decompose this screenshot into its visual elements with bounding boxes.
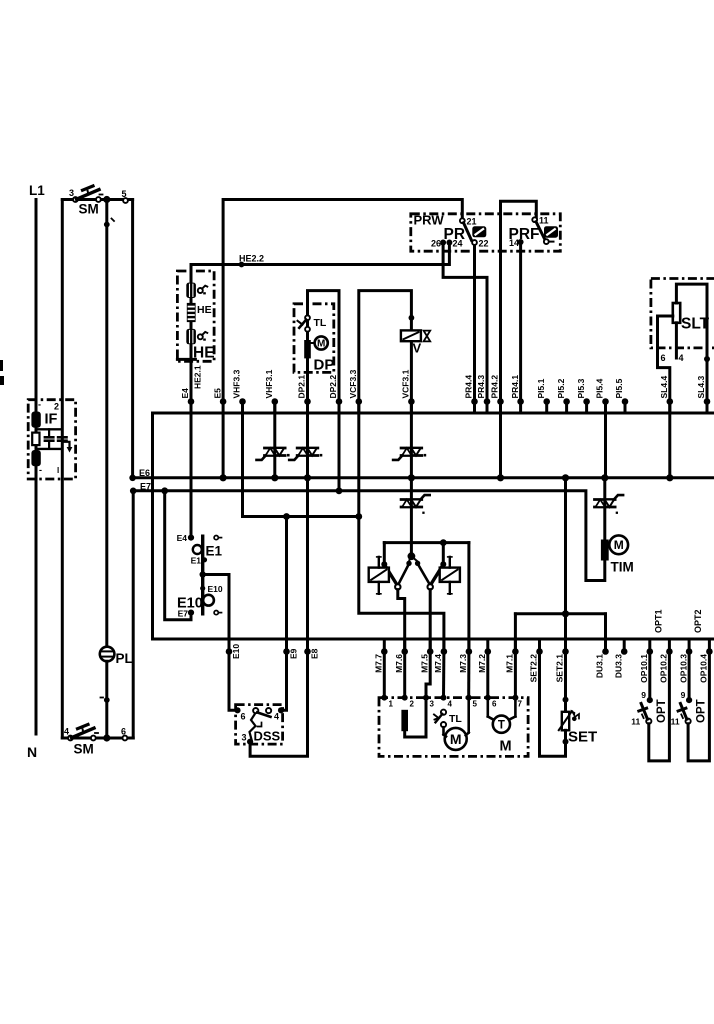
svg-text:E4: E4 — [180, 388, 190, 399]
svg-text:T: T — [498, 719, 505, 731]
svg-text:l: l — [57, 466, 59, 475]
svg-text:PI5.5: PI5.5 — [614, 378, 624, 398]
svg-text:HE: HE — [197, 304, 212, 316]
svg-text:DU3.1: DU3.1 — [595, 654, 605, 678]
svg-text:4: 4 — [448, 700, 453, 709]
svg-text:26: 26 — [431, 239, 441, 249]
svg-text:PR4.2: PR4.2 — [490, 375, 500, 399]
svg-text:HE2.1: HE2.1 — [193, 365, 203, 389]
svg-text:E8: E8 — [310, 648, 320, 659]
svg-text:OPT: OPT — [695, 699, 707, 723]
svg-text:14: 14 — [509, 238, 519, 248]
svg-text:7: 7 — [518, 700, 523, 709]
svg-text:9: 9 — [681, 690, 686, 700]
svg-text:PL: PL — [116, 651, 133, 666]
svg-text:21: 21 — [467, 217, 477, 227]
svg-text:L1: L1 — [29, 183, 45, 198]
svg-text:M7.1: M7.1 — [505, 654, 515, 673]
svg-text:E7: E7 — [140, 482, 151, 492]
svg-text:E4: E4 — [177, 533, 188, 543]
svg-text:OP10.4: OP10.4 — [699, 654, 709, 683]
svg-text:6: 6 — [661, 353, 666, 363]
svg-text:OP10.2: OP10.2 — [659, 654, 669, 683]
svg-text:5: 5 — [122, 189, 127, 199]
svg-text:DU3.3: DU3.3 — [613, 654, 623, 678]
svg-text:M7.4: M7.4 — [433, 654, 443, 673]
svg-text:M7.7: M7.7 — [374, 654, 384, 673]
svg-text:M7.2: M7.2 — [477, 654, 487, 673]
svg-text:PI5.3: PI5.3 — [576, 378, 586, 398]
svg-text:V: V — [413, 341, 422, 356]
svg-text:3: 3 — [69, 188, 74, 198]
svg-text:22: 22 — [479, 239, 489, 249]
svg-text:M7.6: M7.6 — [394, 654, 404, 673]
svg-text:6: 6 — [241, 712, 246, 722]
svg-text:SL4.3: SL4.3 — [696, 376, 706, 399]
svg-text:M: M — [450, 731, 462, 747]
svg-text:1: 1 — [389, 700, 394, 709]
svg-text:TIM: TIM — [611, 560, 634, 575]
svg-text:SLT: SLT — [681, 316, 710, 333]
svg-text:HE: HE — [193, 345, 215, 362]
svg-text:SET2.1: SET2.1 — [555, 654, 565, 683]
svg-text:PRW: PRW — [414, 213, 445, 228]
svg-text:-: - — [38, 400, 41, 410]
svg-text:PR4.4: PR4.4 — [464, 375, 474, 399]
svg-text:PI5.1: PI5.1 — [536, 378, 546, 398]
svg-text:PR4.3: PR4.3 — [476, 375, 486, 399]
svg-text:TL: TL — [314, 317, 327, 329]
svg-text:24: 24 — [453, 239, 463, 249]
svg-text:OPT2: OPT2 — [693, 609, 703, 633]
svg-text:HE2.2: HE2.2 — [239, 254, 264, 264]
svg-text:OPT1: OPT1 — [654, 609, 664, 633]
svg-text:9: 9 — [641, 690, 646, 700]
svg-text:OP10.1: OP10.1 — [639, 654, 649, 683]
svg-text:11: 11 — [631, 717, 640, 727]
svg-text:SM: SM — [74, 742, 94, 757]
svg-text:E1: E1 — [206, 544, 223, 559]
svg-text:TL: TL — [449, 713, 462, 725]
svg-text:11: 11 — [671, 717, 680, 727]
svg-text:DP2.1: DP2.1 — [297, 375, 307, 399]
svg-text:3: 3 — [241, 733, 246, 743]
svg-text:2: 2 — [410, 700, 415, 709]
svg-text:5: 5 — [473, 700, 478, 709]
svg-text:M7.3: M7.3 — [458, 654, 468, 673]
svg-text:M: M — [614, 538, 624, 552]
svg-text:IF: IF — [45, 412, 58, 428]
svg-text:2: 2 — [54, 402, 59, 412]
svg-text:E1: E1 — [191, 556, 202, 566]
svg-text:6: 6 — [492, 700, 497, 709]
svg-text:E9: E9 — [289, 648, 299, 659]
svg-text:PI5.4: PI5.4 — [595, 378, 605, 398]
svg-text:E10: E10 — [231, 644, 241, 659]
svg-text:PR4.1: PR4.1 — [510, 375, 520, 399]
svg-text:4: 4 — [274, 712, 279, 722]
svg-text:3: 3 — [430, 700, 435, 709]
svg-text:DSS: DSS — [254, 729, 281, 744]
svg-text:-: - — [39, 465, 42, 475]
svg-text:M: M — [500, 739, 512, 755]
svg-text:SL4.4: SL4.4 — [659, 376, 669, 399]
svg-text:VHF3.1: VHF3.1 — [264, 369, 274, 398]
svg-text:SM: SM — [79, 202, 99, 217]
svg-text:4: 4 — [679, 353, 684, 363]
svg-text:M: M — [317, 339, 325, 350]
svg-text:VHF3.3: VHF3.3 — [232, 369, 242, 398]
svg-text:E7: E7 — [178, 609, 189, 619]
svg-text:E6: E6 — [139, 468, 150, 478]
svg-text:OPT: OPT — [656, 699, 668, 723]
svg-text:VCF3.3: VCF3.3 — [348, 369, 358, 398]
svg-text:E5: E5 — [212, 388, 222, 399]
svg-text:6: 6 — [121, 727, 126, 737]
svg-text:N: N — [27, 744, 37, 760]
svg-text:DP2.2: DP2.2 — [328, 375, 338, 399]
svg-text:M7.5: M7.5 — [419, 654, 429, 673]
svg-text:4: 4 — [64, 727, 69, 737]
svg-text:SET: SET — [568, 729, 597, 746]
svg-text:DP: DP — [314, 357, 335, 374]
svg-text:E10: E10 — [208, 584, 223, 594]
svg-text:PI5.2: PI5.2 — [556, 378, 566, 398]
svg-text:OP10.3: OP10.3 — [678, 654, 688, 683]
svg-text:SET2.2: SET2.2 — [529, 654, 539, 683]
svg-text:11: 11 — [539, 216, 549, 226]
svg-text:VCF3.1: VCF3.1 — [401, 369, 411, 398]
